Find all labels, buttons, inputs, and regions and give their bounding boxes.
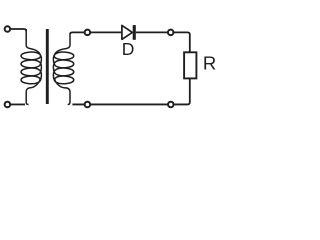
wire diode to right corner down to resistor <box>136 32 190 51</box>
winding L1 (primary) <box>21 29 41 104</box>
diode D <box>122 25 132 39</box>
terminal input top <box>5 26 10 32</box>
svg-text:R: R <box>203 52 216 73</box>
wire resistor bottom to rail <box>72 78 189 104</box>
transformer core <box>46 29 49 104</box>
node top-left circle <box>85 30 91 36</box>
node bottom-left circle <box>85 102 91 108</box>
winding L2 (secondary) <box>53 35 73 105</box>
terminal input bottom <box>5 102 10 108</box>
wire primary top lead <box>11 29 27 31</box>
wire primary bottom lead <box>11 103 25 105</box>
node top-right circle <box>168 30 174 36</box>
node bottom-right circle <box>168 102 174 108</box>
diode cathode bar <box>133 25 136 40</box>
resistor R body <box>184 52 196 78</box>
svg-text:D: D <box>122 39 135 59</box>
wire secondary top corner to diode <box>70 32 122 34</box>
